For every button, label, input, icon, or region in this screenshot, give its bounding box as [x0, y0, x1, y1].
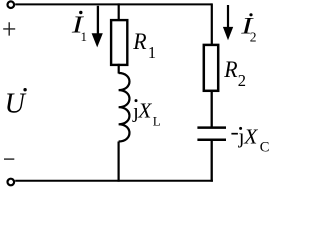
svg-text:1: 1 — [148, 43, 156, 62]
svg-text:L: L — [153, 113, 161, 128]
resistor R2 — [204, 45, 218, 91]
svg-text:X: X — [137, 99, 152, 123]
wire R1 to inductor — [118, 64, 120, 74]
plus sign — [3, 22, 15, 35]
svg-text:2: 2 — [238, 71, 246, 90]
resistor R1 — [111, 20, 127, 65]
wire capacitor to bottom rail — [211, 141, 213, 182]
current arrow I2 — [227, 5, 229, 28]
capacitor C top plate — [197, 126, 226, 129]
svg-text:2: 2 — [250, 29, 257, 44]
wire inductor to bottom rail — [117, 142, 119, 182]
label minus-jXC — [231, 133, 238, 135]
terminal bottom-left (−) — [8, 179, 15, 186]
svg-text:C: C — [260, 140, 270, 156]
svg-text:1: 1 — [81, 29, 88, 44]
wire top rail — [15, 3, 212, 5]
terminal top-left (+) — [8, 1, 15, 8]
svg-text:X: X — [243, 124, 258, 148]
svg-text:R: R — [223, 56, 237, 82]
minus sign — [4, 158, 14, 160]
wire R2 to capacitor — [211, 90, 213, 127]
inductor jXL coil — [119, 73, 130, 142]
wire middle branch top — [118, 3, 120, 20]
wire bottom rail — [15, 180, 213, 182]
wire right branch top — [211, 3, 213, 45]
svg-text:R: R — [132, 28, 146, 54]
svg-text:U: U — [5, 88, 27, 119]
current arrow I1 — [97, 6, 99, 35]
capacitor C bottom plate — [197, 138, 226, 141]
